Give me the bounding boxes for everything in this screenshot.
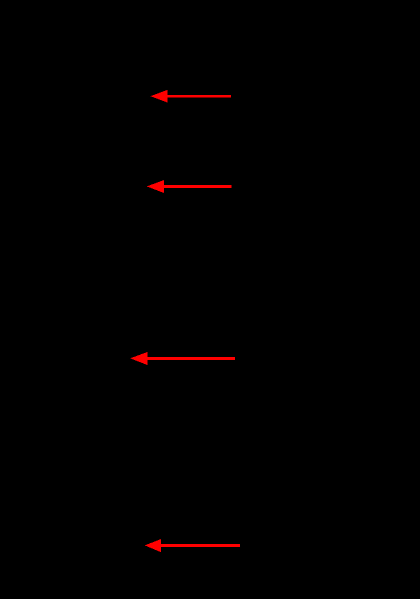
annotation arrow 4 (bottom, points left at node near y=545) — [145, 539, 240, 552]
annotation arrow 3 (third, points left at node near y=358) — [130, 352, 235, 365]
annotation arrow 2 (second, points left at node near y=186) — [147, 180, 232, 193]
annotation arrow 1 (top, points left at node near y=96) — [151, 90, 232, 103]
